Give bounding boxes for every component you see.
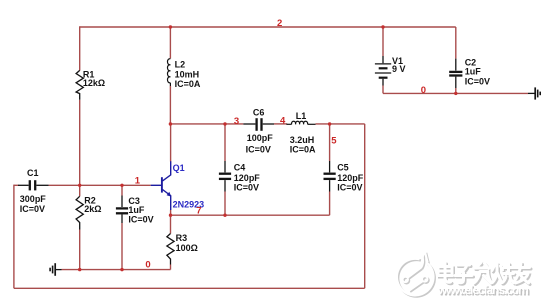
wire V1 top lead (net 2) (382, 27, 384, 56)
wire C5 top lead (node 5) (329, 124, 331, 161)
wire C2 bottom lead (455, 88, 457, 93)
transistor Q1 emitter arrow (167, 192, 172, 197)
svg-text:IC=0V: IC=0V (128, 215, 153, 225)
wire net 2 top horizontal (80, 26, 456, 28)
wire C3 top lead (121, 185, 123, 195)
capacitor C6 (243, 118, 274, 131)
wire net 7 horizontal (171, 214, 330, 216)
svg-text:5: 5 (331, 135, 337, 146)
svg-text:IC=0V: IC=0V (20, 204, 45, 214)
svg-text:3: 3 (234, 116, 239, 127)
svg-text:100pF: 100pF (247, 133, 274, 143)
svg-text:0: 0 (145, 260, 150, 271)
svg-text:L1: L1 (296, 111, 307, 121)
svg-text:10mH: 10mH (175, 69, 200, 79)
capacitor C2 (449, 59, 462, 88)
inductor L1 (286, 121, 315, 124)
svg-text:www.elecfans.com: www.elecfans.com (437, 283, 529, 297)
transistor Q1 (151, 161, 171, 210)
svg-text:120pF: 120pF (234, 173, 261, 183)
wire bottom feedback horizontal (14, 287, 365, 289)
wire net 1 horizontal (C1 to Q1 base) (49, 184, 151, 186)
wire net 0 right horizontal (383, 92, 528, 94)
wire left vertical middle (R1 to R2) (79, 100, 81, 197)
wire C4 top lead (224, 124, 226, 161)
wire C2 top lead (net 2) (455, 27, 457, 59)
svg-text:C4: C4 (234, 163, 246, 173)
junction node 2 at V1 (381, 25, 384, 28)
watermark logo highlight (397, 252, 434, 296)
svg-text:R3: R3 (176, 233, 188, 243)
wire net 3 segment (junction to C6) (170, 123, 243, 125)
watermark logo shadow (398, 253, 435, 297)
svg-text:L2: L2 (175, 60, 186, 70)
battery V1 (375, 56, 391, 86)
svg-text:3.2uH: 3.2uH (290, 135, 315, 145)
svg-text:1: 1 (135, 176, 141, 187)
capacitor C3 (116, 196, 128, 224)
junction node 1 at R1/R2 (78, 184, 81, 187)
wire Q1 collector to node 3 (170, 124, 172, 162)
wire net 5 segment (L1 to right corner) (316, 123, 365, 125)
svg-text:IC=0V: IC=0V (246, 145, 271, 155)
wire C5 bottom to net 7 (329, 192, 331, 216)
wire left vertical lower (R2 to net 0) (79, 230, 81, 270)
wire net 0 horizontal (62, 269, 171, 271)
ground right (net 0) (528, 87, 540, 99)
svg-text:12kΩ: 12kΩ (83, 78, 105, 88)
capacitor C1 (18, 180, 49, 190)
junction net 0 at C3 (120, 268, 123, 271)
capacitor C5 (324, 161, 336, 192)
svg-text:100Ω: 100Ω (176, 243, 198, 253)
svg-text:2kΩ: 2kΩ (84, 204, 101, 214)
inductor L2 (167, 59, 170, 86)
resistor R2 (76, 196, 83, 229)
svg-text:IC=0V: IC=0V (234, 183, 259, 193)
junction net 7 at C4 (223, 214, 226, 217)
wire C4 bottom to net 7 (224, 192, 226, 216)
svg-text:C5: C5 (337, 163, 349, 173)
ground left (net 0) (50, 263, 61, 276)
svg-text:Q1: Q1 (173, 163, 185, 173)
svg-text:4: 4 (280, 116, 286, 127)
svg-text:IC=0A: IC=0A (175, 79, 201, 89)
svg-text:9 V: 9 V (392, 64, 406, 74)
svg-text:IC=0A: IC=0A (290, 145, 316, 155)
junction net 0 at R2 (78, 268, 81, 271)
wire Q1 emitter to net 7 (170, 210, 172, 215)
wire V1 bottom lead (382, 86, 384, 94)
resistor R1 (76, 70, 83, 99)
svg-text:7: 7 (196, 206, 201, 217)
svg-text:120pF: 120pF (337, 173, 364, 183)
svg-text:C6: C6 (253, 108, 265, 118)
watermark chinese text shadow (440, 264, 532, 285)
watermark chinese text highlight (438, 263, 530, 284)
junction net 7 at Q1 emitter (169, 214, 172, 217)
svg-text:IC=0V: IC=0V (337, 183, 362, 193)
svg-text:300pF: 300pF (20, 194, 47, 204)
svg-text:C1: C1 (27, 168, 39, 178)
wire R3 top lead (170, 215, 172, 233)
junction node 5 at C5 (328, 122, 331, 125)
capacitor C4 (219, 161, 231, 192)
wire right feedback vertical (364, 124, 366, 288)
svg-text:2: 2 (277, 18, 282, 29)
wire net 4 segment (C6 to L1) (274, 123, 287, 125)
wire C1 left stub (14, 184, 19, 186)
wire left vertical upper (net 2 to R1) (79, 26, 81, 70)
wire L2 top lead (net 2) (169, 27, 171, 59)
junction net 0 at C2 (454, 92, 457, 95)
svg-text:1uF: 1uF (465, 66, 482, 76)
svg-text:0: 0 (421, 85, 426, 96)
wire C3 bottom to net 0 (121, 223, 123, 270)
wire left edge vertical feedback (13, 185, 15, 289)
junction node 2 at L2 (169, 25, 172, 28)
junction node 1 at C3 (120, 184, 123, 187)
wire L2 bottom to node 3 (169, 86, 171, 124)
junction node 3 at L2/Q1 collector (169, 122, 172, 125)
svg-text:IC=0V: IC=0V (465, 76, 490, 86)
junction node 3 at C4 (223, 122, 226, 125)
wire R3 bottom to net 0 (170, 265, 172, 270)
resistor R3 (167, 234, 174, 265)
